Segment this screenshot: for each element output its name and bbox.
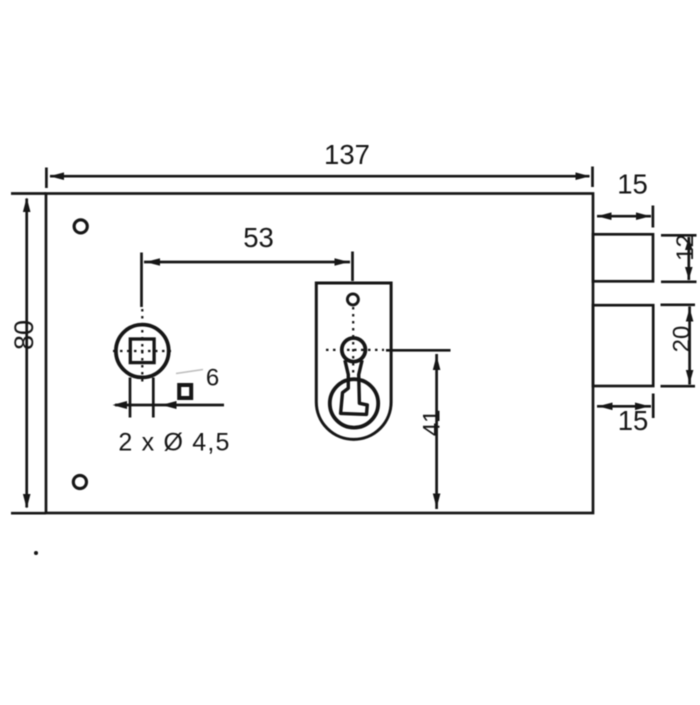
dimension 53 extension ticks <box>142 252 353 308</box>
dimension 15 bottom line with arrows <box>597 403 651 411</box>
keyhole centerline horizontal (dotted) <box>326 349 384 351</box>
dimension text 15 top <box>617 169 648 200</box>
keyhole centerline vertical (dotted) <box>352 307 354 375</box>
svg-text:41: 41 <box>418 409 445 436</box>
key bit circle <box>330 379 378 427</box>
square-hole width extension lines <box>130 378 153 418</box>
dimension 15 top tick <box>652 206 655 228</box>
svg-text:6: 6 <box>206 365 219 392</box>
dimension 15 top line with arrows <box>597 212 651 220</box>
screw hole bottom-left <box>73 475 86 488</box>
svg-text:137: 137 <box>324 139 370 170</box>
dimension text 80 (rotated) <box>9 320 39 350</box>
dimension text 20 (rotated) <box>669 326 696 353</box>
dimension 12 line with arrows <box>685 237 693 280</box>
svg-text:12: 12 <box>672 234 699 261</box>
spindle centerline horizontal (dotted) <box>113 350 171 352</box>
top latch bolt <box>593 234 653 281</box>
dimension 41 line with arrows <box>433 354 441 509</box>
keyhole shaft circle <box>342 338 366 362</box>
stray dot mark <box>34 551 38 555</box>
main lock plate outline <box>46 194 593 514</box>
dimension text 53 <box>243 222 274 253</box>
reference line from keyhole center <box>386 349 451 352</box>
dimension 80 line with arrows <box>23 198 31 509</box>
dimension text 137 <box>324 139 370 170</box>
dimension text 15 bottom <box>618 405 649 436</box>
dimension 20 line with arrows <box>686 307 694 385</box>
escutcheon screw hole <box>347 294 358 305</box>
dimension 137 line with arrows <box>50 172 591 180</box>
label 2 x diameter 4,5 <box>118 429 230 457</box>
dimension 20 extension lines <box>661 305 696 386</box>
svg-text:80: 80 <box>9 320 39 350</box>
bottom latch bolt <box>593 305 653 386</box>
svg-text:15: 15 <box>618 405 649 436</box>
square symbol for 6 <box>179 385 191 398</box>
spindle square hole <box>130 339 154 363</box>
svg-text:2 x Ø 4,5: 2 x Ø 4,5 <box>118 429 230 457</box>
screw hole top-left <box>74 220 87 233</box>
dimension text 12 (rotated) <box>672 234 699 261</box>
square-hole dimension line with arrows <box>113 401 225 409</box>
dimension 137 ticks <box>46 167 592 189</box>
dimension 80 extension lines <box>11 194 46 514</box>
leader line for 6 <box>176 370 203 374</box>
svg-text:53: 53 <box>243 222 274 253</box>
keyhole neck and key bit silhouette <box>341 360 368 414</box>
spindle follower circle <box>116 325 169 378</box>
dimension 15 bottom tick <box>652 394 655 419</box>
dimension 12 extension lines <box>661 235 697 281</box>
keyhole escutcheon plate <box>316 283 391 439</box>
svg-text:15: 15 <box>617 169 648 200</box>
svg-text:20: 20 <box>669 326 696 353</box>
dimension text 6 <box>206 365 219 392</box>
spindle centerline vertical (dotted) <box>141 309 143 386</box>
dimension 53 line with arrows <box>144 258 350 266</box>
dimension text 41 (rotated) <box>418 409 445 436</box>
